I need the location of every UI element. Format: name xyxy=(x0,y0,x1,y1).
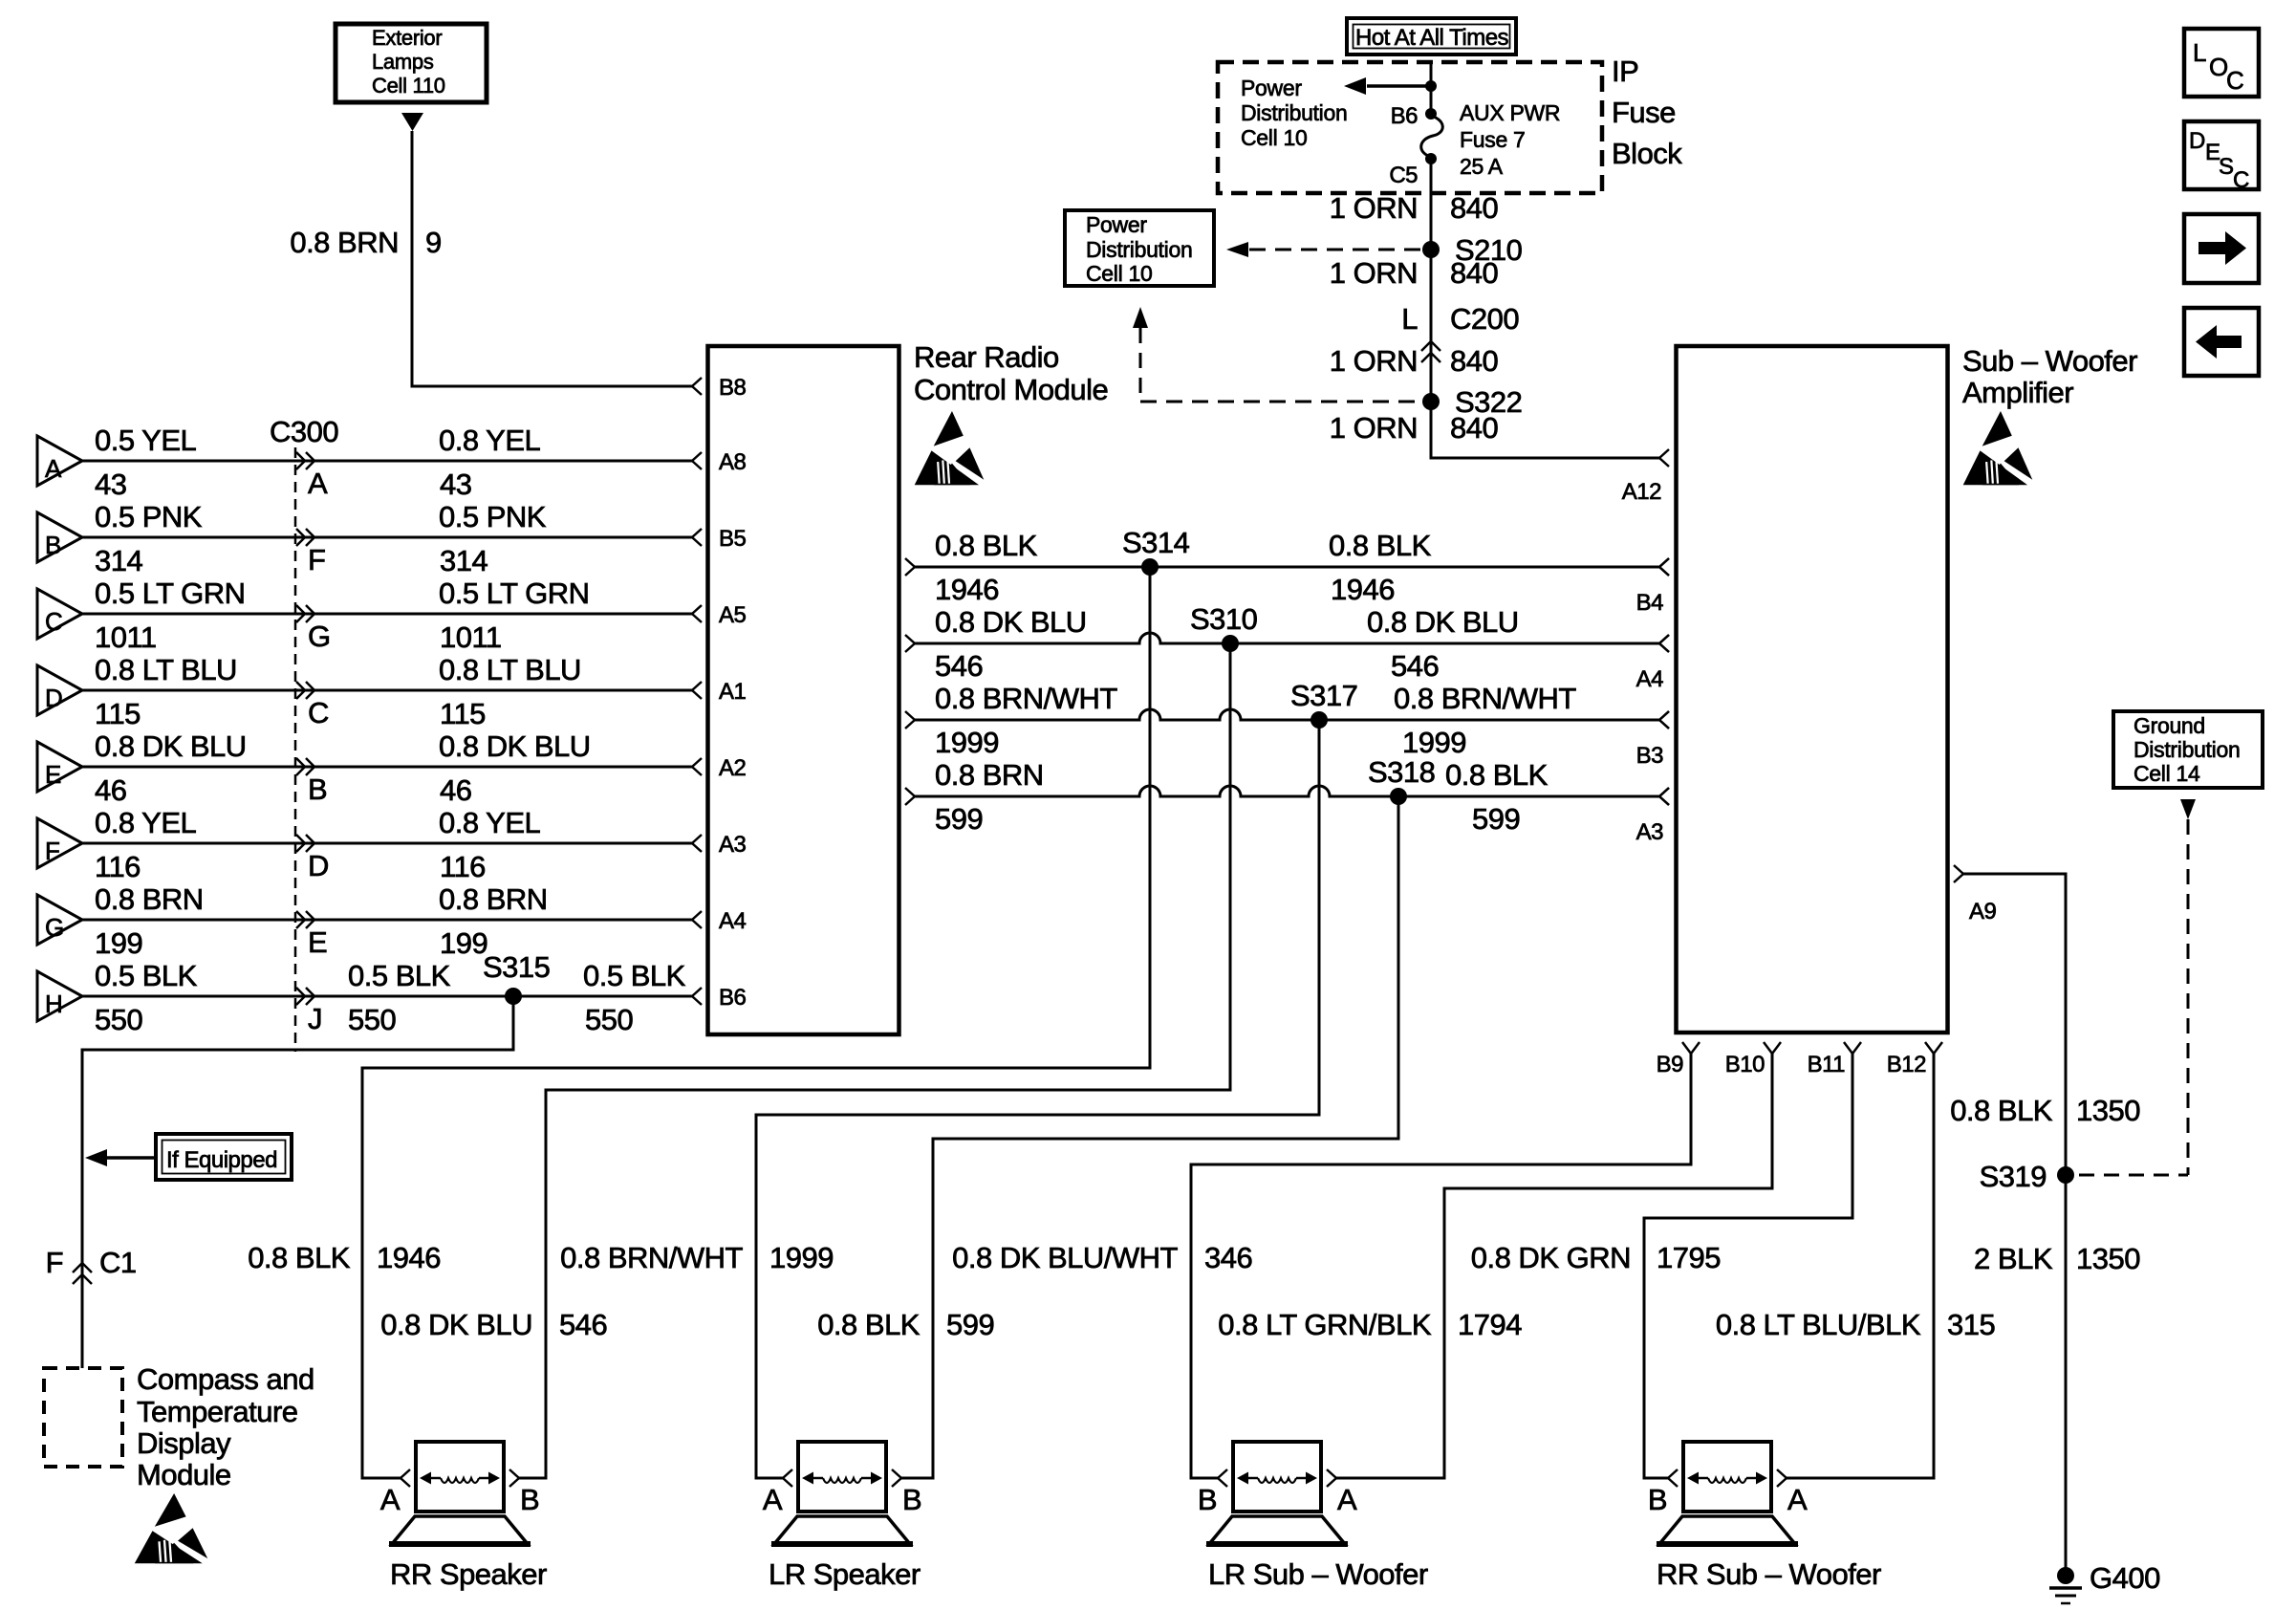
svg-text:B3: B3 xyxy=(1636,743,1664,769)
svg-text:Rear Radio: Rear Radio xyxy=(914,340,1059,374)
svg-text:0.8 LT BLU: 0.8 LT BLU xyxy=(439,653,581,686)
svg-text:Distribution: Distribution xyxy=(1241,100,1347,125)
svg-text:1999: 1999 xyxy=(769,1241,834,1274)
svg-text:0.5 PNK: 0.5 PNK xyxy=(95,500,203,533)
svg-text:A8: A8 xyxy=(719,449,747,475)
svg-text:S314: S314 xyxy=(1122,526,1190,559)
svg-text:1946: 1946 xyxy=(1331,573,1395,606)
svg-text:0.8 BLK: 0.8 BLK xyxy=(1329,529,1432,562)
svg-text:O: O xyxy=(2209,53,2228,81)
svg-text:S315: S315 xyxy=(483,950,550,984)
svg-text:0.8 BLK: 0.8 BLK xyxy=(248,1241,351,1274)
svg-text:9: 9 xyxy=(425,226,442,259)
svg-text:315: 315 xyxy=(1947,1308,1995,1341)
svg-text:IP: IP xyxy=(1612,54,1638,88)
svg-text:C: C xyxy=(2226,66,2243,95)
svg-text:A3: A3 xyxy=(1636,819,1664,845)
svg-text:B: B xyxy=(1648,1483,1667,1516)
svg-text:Cell 10: Cell 10 xyxy=(1086,261,1153,286)
svg-text:A3: A3 xyxy=(719,832,747,858)
svg-text:840: 840 xyxy=(1450,191,1498,225)
svg-text:550: 550 xyxy=(585,1003,633,1036)
svg-text:A4: A4 xyxy=(719,908,747,934)
svg-text:1794: 1794 xyxy=(1458,1308,1522,1341)
svg-text:0.8 BLK: 0.8 BLK xyxy=(817,1308,921,1341)
svg-text:A9: A9 xyxy=(1969,899,1997,925)
svg-text:1999: 1999 xyxy=(935,726,999,759)
svg-text:A4: A4 xyxy=(1636,666,1664,692)
svg-text:B: B xyxy=(520,1483,539,1516)
svg-text:0.8 BLK: 0.8 BLK xyxy=(1950,1094,2053,1127)
svg-text:1350: 1350 xyxy=(2076,1242,2140,1275)
svg-text:H: H xyxy=(45,990,62,1018)
svg-text:RR Speaker: RR Speaker xyxy=(390,1557,547,1591)
svg-text:S318: S318 xyxy=(1368,755,1435,789)
svg-text:0.8 DK GRN: 0.8 DK GRN xyxy=(1471,1241,1631,1274)
svg-text:1795: 1795 xyxy=(1657,1241,1721,1274)
svg-text:G: G xyxy=(45,913,64,942)
svg-text:546: 546 xyxy=(1391,649,1439,683)
svg-text:A: A xyxy=(763,1483,783,1516)
svg-text:S317: S317 xyxy=(1290,679,1357,712)
svg-text:Amplifier: Amplifier xyxy=(1962,376,2073,409)
svg-text:Power: Power xyxy=(1241,76,1302,100)
svg-text:346: 346 xyxy=(1204,1241,1252,1274)
svg-text:599: 599 xyxy=(1472,802,1520,836)
svg-text:F: F xyxy=(45,837,59,865)
svg-text:Cell 14: Cell 14 xyxy=(2134,761,2200,786)
svg-text:0.8 BRN/WHT: 0.8 BRN/WHT xyxy=(560,1241,743,1274)
svg-text:AUX PWR: AUX PWR xyxy=(1460,100,1560,125)
svg-text:0.8 BRN: 0.8 BRN xyxy=(290,226,399,259)
svg-text:L: L xyxy=(2193,38,2206,67)
svg-text:0.5 PNK: 0.5 PNK xyxy=(439,500,547,533)
svg-text:0.5 LT GRN: 0.5 LT GRN xyxy=(95,577,246,610)
svg-text:A: A xyxy=(1787,1483,1808,1516)
svg-text:B6: B6 xyxy=(1391,103,1419,129)
svg-text:Distribution: Distribution xyxy=(1086,237,1192,262)
svg-text:0.8 YEL: 0.8 YEL xyxy=(439,806,541,839)
svg-text:0.5 YEL: 0.5 YEL xyxy=(95,424,197,457)
svg-text:B10: B10 xyxy=(1725,1052,1765,1077)
svg-text:0.5 BLK: 0.5 BLK xyxy=(583,959,686,992)
svg-text:1350: 1350 xyxy=(2076,1094,2140,1127)
svg-text:Lamps: Lamps xyxy=(372,50,434,74)
svg-text:Fuse: Fuse xyxy=(1612,96,1676,129)
svg-text:L: L xyxy=(1401,302,1418,336)
svg-text:115: 115 xyxy=(95,697,141,730)
svg-text:199: 199 xyxy=(440,926,487,960)
svg-text:Block: Block xyxy=(1612,137,1682,170)
svg-text:A2: A2 xyxy=(719,755,747,781)
svg-text:A: A xyxy=(308,467,328,500)
svg-text:Cell 10: Cell 10 xyxy=(1241,125,1308,150)
svg-text:Temperature: Temperature xyxy=(137,1395,298,1428)
svg-text:0.8 BLK: 0.8 BLK xyxy=(1445,758,1549,792)
svg-text:A: A xyxy=(45,454,62,483)
svg-text:B4: B4 xyxy=(1636,590,1664,616)
svg-text:C: C xyxy=(308,696,329,729)
svg-text:116: 116 xyxy=(95,850,141,883)
svg-text:0.8 DK BLU: 0.8 DK BLU xyxy=(1367,605,1519,639)
svg-text:0.8 YEL: 0.8 YEL xyxy=(439,424,541,457)
svg-text:0.5 BLK: 0.5 BLK xyxy=(95,959,198,992)
svg-text:E: E xyxy=(45,760,61,789)
svg-text:A5: A5 xyxy=(719,602,747,628)
svg-text:C5: C5 xyxy=(1389,163,1418,188)
svg-text:E: E xyxy=(308,925,327,959)
svg-text:840: 840 xyxy=(1450,344,1498,378)
svg-text:115: 115 xyxy=(440,697,486,730)
svg-text:25 A: 25 A xyxy=(1460,154,1504,179)
svg-text:0.8 DK BLU: 0.8 DK BLU xyxy=(935,605,1087,639)
svg-text:0.8 DK BLU: 0.8 DK BLU xyxy=(95,729,247,763)
svg-text:0.8 LT BLU: 0.8 LT BLU xyxy=(95,653,237,686)
svg-text:C: C xyxy=(45,607,62,636)
svg-text:0.8 LT GRN/BLK: 0.8 LT GRN/BLK xyxy=(1218,1308,1432,1341)
svg-text:B: B xyxy=(902,1483,921,1516)
svg-text:550: 550 xyxy=(95,1003,142,1036)
svg-text:840: 840 xyxy=(1450,411,1498,445)
svg-text:F: F xyxy=(308,543,325,577)
svg-text:0.8 BRN: 0.8 BRN xyxy=(439,882,548,916)
svg-text:46: 46 xyxy=(440,773,471,807)
svg-text:C1: C1 xyxy=(99,1246,137,1279)
svg-text:Display: Display xyxy=(137,1426,231,1460)
svg-text:1 ORN: 1 ORN xyxy=(1330,191,1418,225)
svg-text:599: 599 xyxy=(946,1308,994,1341)
svg-text:0.8 BLK: 0.8 BLK xyxy=(935,529,1038,562)
svg-text:Distribution: Distribution xyxy=(2134,737,2240,762)
svg-text:S: S xyxy=(2219,154,2234,180)
svg-text:546: 546 xyxy=(559,1308,607,1341)
svg-text:Cell 110: Cell 110 xyxy=(372,74,445,98)
svg-text:2 BLK: 2 BLK xyxy=(1974,1242,2053,1275)
svg-text:1 ORN: 1 ORN xyxy=(1330,344,1418,378)
svg-text:B9: B9 xyxy=(1657,1052,1684,1077)
svg-text:Power: Power xyxy=(1086,212,1147,237)
svg-text:1011: 1011 xyxy=(440,620,502,654)
svg-text:46: 46 xyxy=(95,773,126,807)
svg-text:Exterior: Exterior xyxy=(372,26,442,50)
svg-text:0.8 DK BLU/WHT: 0.8 DK BLU/WHT xyxy=(952,1241,1178,1274)
svg-text:0.8 BRN/WHT: 0.8 BRN/WHT xyxy=(1394,682,1576,715)
svg-text:1 ORN: 1 ORN xyxy=(1330,256,1418,290)
svg-text:0.5 LT GRN: 0.5 LT GRN xyxy=(439,577,590,610)
svg-text:G: G xyxy=(308,620,331,653)
svg-text:B5: B5 xyxy=(719,526,747,552)
svg-text:F: F xyxy=(46,1246,63,1279)
svg-text:LR Sub – Woofer: LR Sub – Woofer xyxy=(1208,1557,1428,1591)
svg-text:B: B xyxy=(45,531,61,559)
svg-text:B: B xyxy=(1198,1483,1217,1516)
svg-text:546: 546 xyxy=(935,649,983,683)
svg-text:0.8 DK BLU: 0.8 DK BLU xyxy=(380,1308,532,1341)
svg-text:199: 199 xyxy=(95,926,142,960)
svg-text:116: 116 xyxy=(440,850,486,883)
svg-text:B: B xyxy=(308,772,327,806)
svg-text:S310: S310 xyxy=(1190,602,1258,636)
svg-text:A12: A12 xyxy=(1622,479,1661,505)
svg-text:D: D xyxy=(2189,128,2205,154)
svg-text:Hot At All Times: Hot At All Times xyxy=(1355,25,1509,51)
svg-text:Compass and: Compass and xyxy=(137,1362,314,1396)
svg-text:43: 43 xyxy=(95,468,126,501)
svg-text:0.8 BRN: 0.8 BRN xyxy=(95,882,204,916)
svg-text:RR Sub – Woofer: RR Sub – Woofer xyxy=(1657,1557,1881,1591)
svg-text:1999: 1999 xyxy=(1402,726,1466,759)
svg-text:314: 314 xyxy=(95,544,142,577)
svg-text:Module: Module xyxy=(137,1458,231,1491)
svg-text:C300: C300 xyxy=(270,415,338,448)
svg-text:0.8 BRN/WHT: 0.8 BRN/WHT xyxy=(935,682,1117,715)
svg-text:1 ORN: 1 ORN xyxy=(1330,411,1418,445)
svg-text:B11: B11 xyxy=(1808,1052,1846,1077)
svg-text:D: D xyxy=(308,849,329,882)
svg-text:Control Module: Control Module xyxy=(914,373,1108,406)
svg-text:1946: 1946 xyxy=(935,573,999,606)
svg-text:C: C xyxy=(2233,167,2249,193)
svg-text:B6: B6 xyxy=(719,985,747,1011)
svg-text:If Equipped: If Equipped xyxy=(166,1147,277,1173)
svg-text:0.8 BRN: 0.8 BRN xyxy=(935,758,1044,792)
svg-text:S319: S319 xyxy=(1980,1160,2047,1193)
svg-text:1946: 1946 xyxy=(377,1241,441,1274)
svg-text:43: 43 xyxy=(440,468,471,501)
svg-text:1011: 1011 xyxy=(95,620,157,654)
svg-text:D: D xyxy=(45,684,62,712)
svg-text:0.8 DK BLU: 0.8 DK BLU xyxy=(439,729,591,763)
svg-text:A: A xyxy=(1337,1483,1357,1516)
svg-text:J: J xyxy=(308,1002,322,1035)
svg-text:A: A xyxy=(380,1483,401,1516)
svg-text:LR Speaker: LR Speaker xyxy=(769,1557,921,1591)
svg-text:B8: B8 xyxy=(719,375,747,401)
svg-text:C200: C200 xyxy=(1450,302,1519,336)
svg-text:Ground: Ground xyxy=(2134,713,2205,738)
svg-text:599: 599 xyxy=(935,802,983,836)
svg-text:A1: A1 xyxy=(719,679,747,705)
svg-text:B12: B12 xyxy=(1887,1052,1926,1077)
svg-text:314: 314 xyxy=(440,544,487,577)
svg-text:550: 550 xyxy=(348,1003,396,1036)
svg-text:Fuse 7: Fuse 7 xyxy=(1460,127,1526,152)
svg-text:Sub – Woofer: Sub – Woofer xyxy=(1962,344,2137,378)
svg-text:0.8 YEL: 0.8 YEL xyxy=(95,806,197,839)
svg-text:0.8 LT BLU/BLK: 0.8 LT BLU/BLK xyxy=(1716,1308,1921,1341)
svg-text:840: 840 xyxy=(1450,256,1498,290)
svg-text:G400: G400 xyxy=(2090,1561,2160,1595)
svg-text:0.5 BLK: 0.5 BLK xyxy=(348,959,451,992)
